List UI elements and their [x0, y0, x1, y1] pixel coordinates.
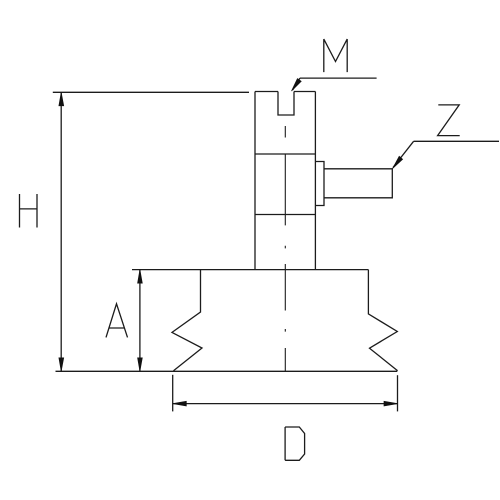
- label A: [106, 304, 128, 338]
- cup bottom edge and extension line: [56, 370, 398, 372]
- leader Z diagonal: [393, 141, 414, 167]
- leader M arrowhead: [292, 79, 302, 91]
- dimension H line: [60, 92, 62, 371]
- fitting body top section outline: [255, 92, 315, 270]
- dimension D extension line right: [397, 375, 399, 411]
- dimension A arrow bottom: [138, 358, 143, 371]
- dimension D arrow right: [384, 401, 397, 406]
- body section boundary line lower: [255, 214, 315, 216]
- body section boundary line upper: [255, 153, 315, 155]
- label D: [285, 427, 305, 460]
- side port tube: [324, 169, 392, 198]
- label H: [20, 194, 38, 228]
- dimension D line: [173, 403, 398, 405]
- dimension A extension line top: [132, 269, 201, 271]
- dimension H arrow bottom: [59, 358, 64, 371]
- dimension H arrow top: [59, 92, 64, 105]
- label Z: [438, 105, 460, 136]
- dimension A line: [139, 270, 141, 372]
- cup right bellows profile: [368, 270, 397, 371]
- leader Z shelf: [414, 140, 499, 142]
- side boss: [315, 162, 324, 206]
- centerline: [284, 126, 286, 371]
- thread port notch: [278, 92, 294, 116]
- dimension D extension line left: [172, 375, 174, 412]
- dimension A arrow top: [138, 270, 143, 283]
- leader M shelf: [300, 77, 377, 79]
- dimension H extension line top: [53, 91, 249, 93]
- cup top plate: [201, 269, 369, 271]
- dimension D arrow left: [173, 401, 186, 406]
- label M: [324, 39, 347, 72]
- leader Z arrowhead: [393, 156, 403, 168]
- cup left bellows profile: [172, 270, 202, 371]
- leader M diagonal: [293, 78, 300, 90]
